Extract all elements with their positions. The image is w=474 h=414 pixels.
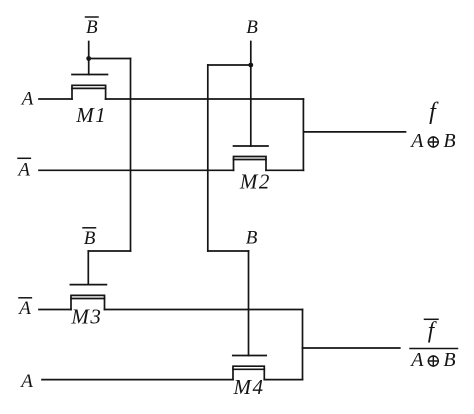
junction dot at M2 gate node	[248, 63, 253, 68]
wire: junction to left riser	[208, 64, 251, 66]
wire: riser down (B-bar net)	[130, 59, 132, 252]
svg-text:A: A	[17, 298, 31, 319]
svg-text:B: B	[246, 17, 258, 38]
node B-bar (bottom) label	[84, 228, 96, 249]
svg-text:A: A	[409, 349, 424, 371]
node A-bar (top) label	[16, 160, 30, 181]
wire: M4 drain to output riser	[264, 379, 302, 381]
svg-text:A: A	[19, 371, 33, 392]
wire: f-bar output stub	[303, 347, 400, 349]
xor symbol (bottom)	[428, 356, 438, 366]
wire: A input to M1 source	[39, 98, 72, 100]
label M4	[233, 375, 265, 399]
fraction bar	[410, 348, 458, 350]
wire: jog left to lower B-bar	[88, 250, 130, 252]
node B (bottom) label	[246, 228, 258, 249]
wire: output riser (bottom)	[302, 310, 304, 380]
wire: output riser (top)	[302, 99, 304, 170]
svg-text:A: A	[16, 160, 30, 181]
svg-text:B: B	[246, 228, 258, 249]
node f-bar label	[409, 318, 455, 372]
wire: f output stub	[303, 131, 405, 133]
wire: jog right to lower B	[208, 250, 249, 252]
svg-text:B: B	[84, 228, 96, 249]
label M2	[239, 170, 271, 194]
wire: M3 drain to output riser	[105, 309, 303, 311]
transistor M3	[70, 285, 106, 310]
transistor M1	[72, 75, 108, 100]
svg-text:A: A	[409, 130, 424, 152]
svg-text:B: B	[443, 130, 455, 152]
transistor M2	[234, 146, 269, 170]
wire: A-bar input to M3 source	[39, 309, 71, 311]
svg-text:f: f	[429, 99, 439, 125]
svg-text:M3: M3	[70, 305, 102, 329]
wire: M3 gate lead	[87, 251, 89, 285]
label M1	[75, 103, 107, 127]
transistor M4	[233, 356, 266, 380]
junction dot at M1 gate node	[86, 56, 91, 61]
wire: M4 gate lead	[248, 251, 250, 356]
node B-bar (top) label	[86, 17, 98, 38]
wire: junction to right riser	[89, 58, 131, 60]
label M3	[70, 305, 102, 329]
svg-text:B: B	[443, 349, 455, 371]
wire: M2 drain to output riser	[266, 169, 303, 171]
svg-text:M1: M1	[75, 103, 107, 127]
wire: M1 drain to output riser	[106, 98, 304, 100]
node f label	[409, 99, 455, 152]
wire: A-bar input to M2 source	[39, 169, 234, 171]
wire: B input to M2 gate	[250, 42, 252, 147]
svg-text:B: B	[86, 17, 98, 38]
svg-text:A: A	[20, 89, 34, 110]
xor symbol (top)	[428, 137, 438, 147]
svg-text:M4: M4	[233, 375, 265, 399]
node A-bar (bottom) label	[17, 298, 31, 319]
node A (top) label	[20, 89, 34, 110]
node A (bottom) label	[19, 371, 33, 392]
node B (top) label	[246, 17, 258, 38]
wire: B-bar input to M1 gate	[88, 42, 90, 75]
wire: riser down (B net)	[207, 65, 209, 251]
wire: A input to M4 source	[42, 379, 233, 381]
svg-text:f: f	[428, 318, 438, 343]
svg-text:M2: M2	[239, 170, 271, 194]
